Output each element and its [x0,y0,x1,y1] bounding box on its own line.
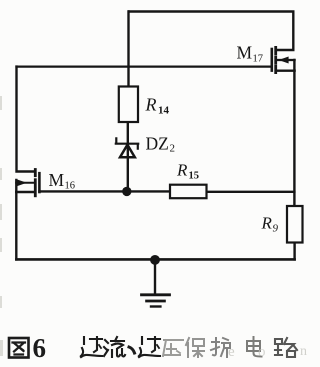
svg-text:R: R [145,95,157,115]
svg-text:R: R [261,214,273,233]
svg-text:o: o [258,344,266,360]
svg-text:n: n [300,344,307,359]
svg-text:e: e [228,344,235,360]
svg-text:R: R [176,161,188,180]
svg-text:6: 6 [33,333,47,363]
svg-text:15: 15 [189,171,200,182]
svg-text:9: 9 [273,223,279,235]
svg-text:M: M [49,170,65,190]
svg-text:14: 14 [158,105,170,117]
svg-text:DZ: DZ [146,134,169,154]
svg-text:17: 17 [253,54,264,65]
svg-text:2: 2 [170,143,176,155]
svg-text:M: M [237,43,253,63]
svg-text:16: 16 [65,181,76,192]
